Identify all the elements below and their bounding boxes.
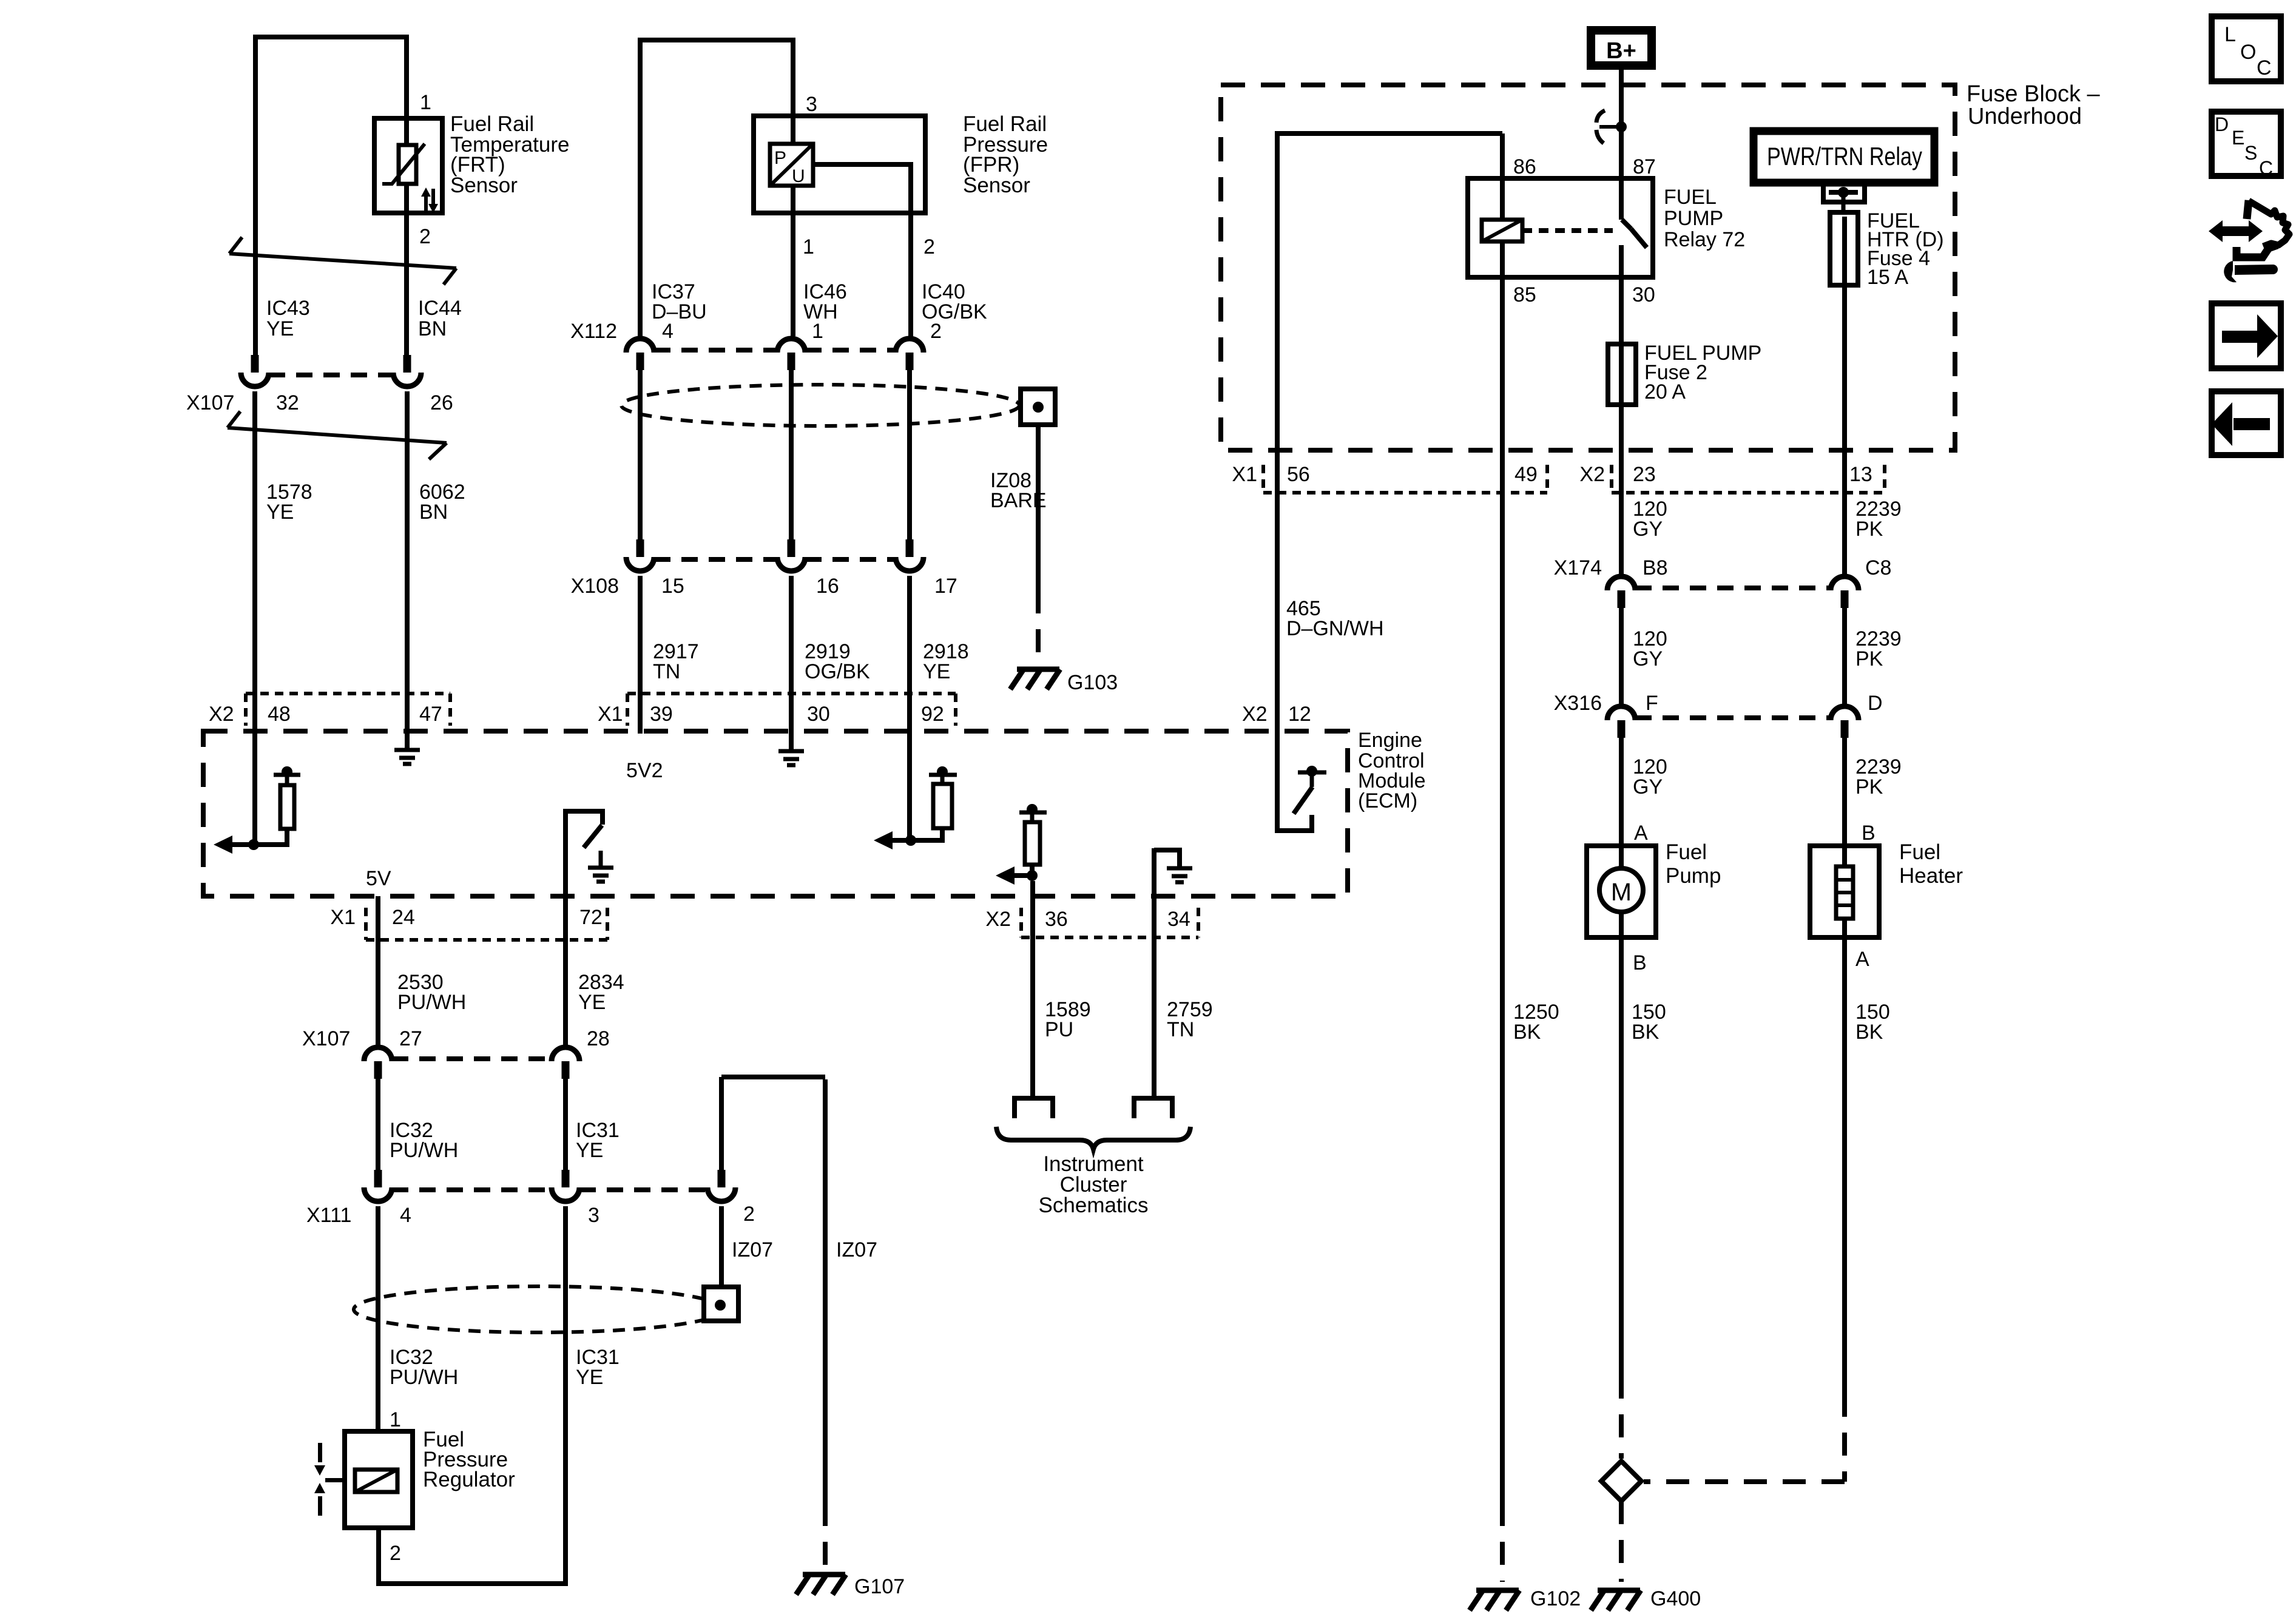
- svg-text:YE: YE: [576, 1139, 603, 1162]
- svg-text:A: A: [1634, 822, 1648, 845]
- Engine Control Module (ECM) dashed box: [203, 731, 1348, 896]
- svg-text:86: 86: [1513, 155, 1536, 178]
- wire 1250 BK dashed to G102: [1500, 1503, 1505, 1582]
- svg-text:PU/WH: PU/WH: [397, 991, 466, 1014]
- svg-text:X2: X2: [1242, 703, 1268, 726]
- ground G400 symbol: [1591, 1590, 1641, 1610]
- svg-text:23: 23: [1633, 463, 1656, 486]
- dashed link X108 row a: [654, 557, 777, 562]
- wire IZ07 to G107 solid: [823, 1079, 828, 1503]
- svg-text:Fuse Block –: Fuse Block –: [1967, 81, 2101, 107]
- PWR/TRN output clip: [1823, 184, 1865, 212]
- wire 6062 BN to ECM X2-47: [405, 391, 410, 749]
- svg-text:47: 47: [419, 703, 442, 726]
- relay coil: [1482, 220, 1522, 241]
- FUEL PUMP Relay 72 box: [1468, 178, 1653, 277]
- Fuel Heater box: [1810, 846, 1879, 937]
- wire 465 feed - relay86 rail to ECM pin12 hook: [1277, 133, 1502, 831]
- connector X111 terminal 3: [552, 1170, 579, 1201]
- splice IZ07 box: [704, 1287, 738, 1321]
- dashed link X107 row2: [392, 1056, 552, 1061]
- splice diamond G400: [1601, 1461, 1641, 1501]
- svg-text:X108: X108: [571, 575, 619, 598]
- wire IZ08 dashed section: [1036, 590, 1041, 666]
- svg-text:2: 2: [923, 235, 935, 258]
- svg-text:Relay 72: Relay 72: [1664, 228, 1745, 251]
- ECM input arrow at pin 48: [214, 836, 254, 854]
- svg-text:B: B: [1633, 951, 1647, 974]
- FRT sensor box: [374, 118, 442, 213]
- svg-text:GY: GY: [1633, 775, 1663, 798]
- wire 2917 TN to ECM X1-39: [638, 576, 643, 734]
- svg-text:YE: YE: [923, 660, 950, 683]
- svg-text:YE: YE: [266, 317, 294, 340]
- ECM 5V pull-up resistor at pin 92: [905, 766, 957, 846]
- wire FPR pin3: [791, 38, 795, 144]
- svg-text:Engine: Engine: [1358, 729, 1422, 752]
- wire 150 BK pump dashed to diamond: [1619, 1376, 1624, 1459]
- connector X111 terminal 4: [364, 1170, 392, 1201]
- svg-text:PK: PK: [1855, 775, 1883, 798]
- icon hand with wrench: [2209, 200, 2289, 282]
- svg-text:O: O: [2240, 41, 2256, 64]
- svg-text:20 A: 20 A: [1644, 380, 1686, 403]
- svg-text:A: A: [1855, 948, 1869, 971]
- connector X316 terminal F: [1607, 706, 1635, 738]
- relay coil-switch dashed link: [1522, 228, 1613, 233]
- up/down arrows inside FRT: [421, 187, 438, 213]
- svg-text:4: 4: [400, 1204, 411, 1227]
- connector X107 terminal 28: [552, 1047, 579, 1079]
- svg-text:G102: G102: [1530, 1587, 1581, 1610]
- svg-text:X112: X112: [570, 320, 617, 343]
- wire through fuse4 down to X174-C8: [1842, 217, 1847, 574]
- svg-text:Pump: Pump: [1666, 864, 1721, 888]
- regulator valve arrows: [314, 1443, 345, 1516]
- svg-text:B: B: [1862, 822, 1876, 845]
- svg-text:X2: X2: [985, 908, 1011, 931]
- svg-text:GY: GY: [1633, 647, 1663, 670]
- svg-text:15 A: 15 A: [1867, 266, 1908, 289]
- wire 2239 PK third: [1842, 737, 1847, 871]
- dashed link X174 row: [1635, 586, 1831, 590]
- svg-text:PK: PK: [1855, 647, 1883, 670]
- svg-text:Sensor: Sensor: [963, 174, 1030, 197]
- svg-text:2: 2: [419, 225, 431, 248]
- svg-text:12: 12: [1288, 703, 1311, 726]
- svg-text:C: C: [2259, 157, 2273, 179]
- ECM internal ground at pin 30: [778, 751, 804, 765]
- svg-text:F: F: [1646, 692, 1658, 715]
- wire FPR pin2 to X112-2: [908, 211, 913, 336]
- svg-text:PK: PK: [1855, 518, 1883, 541]
- wire through fuse2 down to X174-B8: [1619, 261, 1624, 574]
- fuse block bottom connector id row X1: [1263, 465, 1547, 493]
- svg-text:Schematics: Schematics: [1039, 1193, 1149, 1217]
- svg-text:PU: PU: [1045, 1018, 1073, 1041]
- svg-text:32: 32: [276, 391, 299, 414]
- splice IZ08 box: [1021, 389, 1055, 425]
- relay switch blade: [1622, 220, 1647, 248]
- svg-text:56: 56: [1287, 463, 1310, 486]
- svg-text:D–GN/WH: D–GN/WH: [1286, 617, 1384, 640]
- ECM 5V pull-up resistor at pin 48: [248, 766, 300, 850]
- svg-text:30: 30: [1632, 283, 1655, 306]
- svg-text:Fuel: Fuel: [1666, 840, 1707, 864]
- FUEL HTR (D) Fuse 4: [1830, 212, 1858, 285]
- svg-text:C: C: [2257, 56, 2272, 79]
- icon box DESC: [2212, 112, 2281, 179]
- dashed link X111 row b: [579, 1187, 707, 1192]
- svg-text:L: L: [2224, 23, 2236, 46]
- svg-text:34: 34: [1167, 908, 1190, 931]
- svg-text:BK: BK: [1513, 1021, 1541, 1044]
- regulator solenoid symbol: [355, 1470, 397, 1492]
- ECM internal ground elbow at pin 34: [1154, 848, 1180, 896]
- wire 2239 PK second: [1842, 607, 1847, 704]
- dashed link X112 row a: [654, 348, 777, 353]
- harness crossing symbol (second): [228, 411, 447, 459]
- svg-text:X107: X107: [302, 1027, 350, 1050]
- FUEL PUMP Fuse 2: [1608, 344, 1636, 405]
- wire relay 30 to fuse 2: [1619, 245, 1624, 344]
- wire 2918 YE to ECM X1-92: [907, 576, 912, 840]
- svg-text:U: U: [792, 166, 805, 186]
- connector X174 terminal C8: [1831, 576, 1859, 608]
- connector X174 terminal B8: [1607, 576, 1635, 608]
- FPR sensor box: [754, 116, 925, 213]
- svg-text:YE: YE: [266, 501, 294, 524]
- svg-text:X174: X174: [1554, 556, 1602, 579]
- svg-text:1: 1: [390, 1408, 401, 1431]
- svg-text:GY: GY: [1633, 518, 1663, 541]
- svg-text:(ECM): (ECM): [1358, 789, 1417, 812]
- svg-text:B+: B+: [1606, 38, 1636, 64]
- svg-text:Heater: Heater: [1899, 864, 1963, 888]
- svg-text:15: 15: [661, 575, 684, 598]
- svg-text:Fuel: Fuel: [1899, 840, 1940, 864]
- wire IC32 PU/WH lower: [376, 1206, 380, 1431]
- svg-text:X2: X2: [209, 703, 234, 726]
- dashed link X316 row: [1635, 715, 1831, 720]
- ground G107 symbol: [796, 1575, 846, 1595]
- cluster terminal bracket pin 34: [1134, 1098, 1172, 1118]
- svg-text:49: 49: [1514, 463, 1538, 486]
- wire - FPR top jumper: [638, 38, 793, 42]
- dashed link X111 row a: [392, 1187, 552, 1192]
- harness loop ellipse lower: [354, 1286, 724, 1332]
- PWR/TRN Relay box: [1754, 131, 1934, 183]
- svg-text:OG/BK: OG/BK: [805, 660, 870, 683]
- svg-text:X1: X1: [598, 703, 623, 726]
- svg-text:PUMP: PUMP: [1664, 207, 1723, 230]
- svg-text:D: D: [2215, 113, 2229, 135]
- svg-text:D–BU: D–BU: [652, 300, 707, 323]
- svg-text:5V2: 5V2: [626, 759, 663, 782]
- svg-text:92: 92: [921, 703, 944, 726]
- wire IC31 YE upper: [563, 1078, 568, 1170]
- svg-text:3: 3: [806, 93, 817, 116]
- heater element: [1836, 866, 1853, 919]
- ECM input arrow at pin 36: [996, 866, 1032, 885]
- svg-text:YE: YE: [576, 1366, 603, 1389]
- svg-text:X111: X111: [306, 1204, 351, 1227]
- wire - FRT pin1 drop to X107-32: [253, 35, 258, 357]
- svg-text:16: 16: [816, 575, 839, 598]
- svg-text:2: 2: [743, 1203, 755, 1226]
- wire heater return horizontal dashed: [1644, 1479, 1845, 1484]
- connector X108 terminal 17: [896, 539, 923, 571]
- wire FPR pin1 to X112-1: [791, 186, 795, 336]
- ECM bottom connector id row X2 (36,34): [1021, 908, 1198, 937]
- wire 2530 PU/WH: [376, 896, 380, 1045]
- icon box arrow right: [2212, 303, 2281, 368]
- P/U transducer symbol: [770, 144, 813, 186]
- connector X107 terminal 26: [393, 355, 421, 387]
- wire - FRT pin2 drop to X107-26: [404, 35, 409, 355]
- B+ stud junction and clip: [1596, 110, 1627, 143]
- wire regulator return bottom: [379, 1528, 568, 1584]
- dashed link X112 row b: [805, 348, 896, 353]
- connector X316 terminal D: [1831, 706, 1859, 738]
- wire 2759 TN: [1152, 896, 1156, 1096]
- wire 120 GY second: [1619, 607, 1624, 704]
- wire 150 BK heater dashed corner: [1842, 1394, 1847, 1482]
- ECM input arrow at pin 92: [874, 831, 911, 849]
- svg-text:Underhood: Underhood: [1968, 104, 2082, 129]
- wire 2919 OG/BK to ECM X1-30: [789, 576, 794, 749]
- connector X107 terminal 32: [241, 355, 269, 387]
- svg-text:5V: 5V: [366, 867, 391, 890]
- svg-text:BN: BN: [418, 317, 447, 340]
- connector X112 terminal 1: [777, 339, 805, 370]
- wire IC32 PU/WH upper: [376, 1078, 380, 1170]
- ECM 5V pull-up resistor at pin 36: [1019, 804, 1047, 881]
- ECM internal ground at pin 34: [1167, 868, 1192, 882]
- wire 150 BK pump solid: [1619, 912, 1624, 1376]
- connector X112 terminal 2: [896, 339, 923, 370]
- svg-text:C8: C8: [1865, 556, 1891, 579]
- ground G103 symbol: [1010, 669, 1060, 689]
- svg-text:1: 1: [420, 91, 431, 114]
- svg-text:M: M: [1611, 878, 1632, 906]
- svg-text:IC43: IC43: [266, 297, 310, 320]
- wire IC40 YE: [907, 370, 912, 539]
- connector X107 terminal 27: [364, 1047, 392, 1079]
- svg-text:PU/WH: PU/WH: [390, 1366, 458, 1389]
- ECM driver switch at pin 72: [566, 811, 603, 896]
- wire IZ07 top link: [721, 1075, 825, 1079]
- svg-text:X107: X107: [186, 391, 234, 414]
- svg-text:FUEL: FUEL: [1664, 186, 1717, 209]
- svg-text:B8: B8: [1643, 556, 1668, 579]
- svg-text:YE: YE: [578, 991, 606, 1014]
- harness crossing symbol (top): [229, 237, 456, 285]
- wire diamond to G400 dashed: [1619, 1501, 1624, 1582]
- thermistor element inside FRT: [382, 144, 425, 184]
- svg-text:72: 72: [579, 906, 603, 929]
- svg-text:BK: BK: [1855, 1021, 1883, 1044]
- svg-text:P: P: [774, 148, 786, 168]
- icon box arrow left: [2212, 391, 2281, 455]
- svg-text:X2: X2: [1579, 463, 1605, 486]
- svg-text:X316: X316: [1554, 692, 1602, 715]
- ECM internal ground at pin 47: [394, 750, 420, 764]
- wire to relay coil 86: [1500, 133, 1505, 220]
- svg-text:S: S: [2244, 142, 2257, 164]
- wire 1589 PU: [1030, 881, 1035, 1096]
- wire IC37 TN: [638, 370, 643, 539]
- svg-text:X1: X1: [330, 906, 356, 929]
- wire IZ08 bare to G103 solid: [1036, 425, 1041, 590]
- svg-text:X1: X1: [1232, 463, 1257, 486]
- wire IC46 OG/BK: [789, 370, 794, 539]
- Fuel Pressure Regulator box: [345, 1431, 413, 1528]
- connector X112 terminal 4: [626, 339, 654, 370]
- wire B+ to relay 87: [1619, 67, 1624, 220]
- svg-text:OG/BK: OG/BK: [922, 300, 987, 323]
- svg-text:39: 39: [650, 703, 673, 726]
- svg-text:2: 2: [390, 1542, 401, 1565]
- cluster terminal bracket pin 36: [1015, 1098, 1053, 1118]
- fuse block bottom connector id row X2: [1612, 465, 1885, 493]
- svg-text:3: 3: [588, 1204, 599, 1227]
- svg-text:Sensor: Sensor: [450, 174, 518, 197]
- svg-text:28: 28: [587, 1027, 610, 1050]
- svg-text:27: 27: [399, 1027, 422, 1050]
- svg-text:13: 13: [1849, 463, 1872, 486]
- svg-text:24: 24: [392, 906, 415, 929]
- svg-text:17: 17: [934, 575, 957, 598]
- svg-text:26: 26: [430, 391, 453, 414]
- svg-text:TN: TN: [1167, 1018, 1194, 1041]
- ECM driver switch at pin 12: [1294, 766, 1326, 814]
- dashed link X107 row1: [269, 373, 393, 377]
- wire IZ07 dashed section: [823, 1503, 828, 1571]
- svg-text:IC44: IC44: [418, 297, 462, 320]
- ECM internal ground at pin 72 switch: [588, 868, 613, 882]
- wire IZ07 to splice: [719, 1206, 724, 1287]
- svg-text:Regulator: Regulator: [423, 1468, 515, 1491]
- svg-text:IZ07: IZ07: [836, 1238, 877, 1261]
- wire IC37 D-BU (X112-4 drop): [638, 38, 643, 336]
- svg-text:G103: G103: [1067, 671, 1118, 694]
- svg-text:G107: G107: [854, 1575, 905, 1598]
- wire to X111-2: [719, 1077, 724, 1170]
- svg-text:G400: G400: [1650, 1587, 1701, 1610]
- svg-text:48: 48: [268, 703, 291, 726]
- svg-text:BK: BK: [1632, 1021, 1660, 1044]
- connector X111 terminal 2: [707, 1170, 735, 1201]
- wire 2834 YE: [563, 896, 568, 1045]
- wire 120 GY third: [1619, 737, 1624, 868]
- Fuse Block - Underhood dashed box: [1221, 85, 1955, 450]
- B+ terminal box: [1591, 30, 1652, 66]
- svg-text:87: 87: [1633, 155, 1656, 178]
- svg-text:30: 30: [807, 703, 830, 726]
- svg-text:36: 36: [1045, 908, 1068, 931]
- Fuel Pump box: [1587, 846, 1656, 937]
- ground G102 symbol: [1470, 1590, 1519, 1610]
- svg-text:D: D: [1868, 692, 1883, 715]
- svg-text:TN: TN: [653, 660, 680, 683]
- fuel pump motor: [1599, 868, 1643, 912]
- wire 150 BK heater solid: [1842, 919, 1847, 1394]
- wire - top jumper between FRT pins: [253, 35, 409, 39]
- wire FPR internal link to pin2: [813, 164, 911, 213]
- svg-text:IZ07: IZ07: [732, 1238, 773, 1261]
- ECM connector id row X2 (48,47): [246, 694, 450, 726]
- svg-text:BN: BN: [419, 501, 448, 524]
- svg-text:WH: WH: [803, 300, 838, 323]
- svg-text:1: 1: [803, 235, 814, 258]
- wire relay85-49-1250BK to G102 solid: [1500, 241, 1505, 1503]
- svg-text:E: E: [2232, 127, 2244, 149]
- svg-text:PWR/TRN Relay: PWR/TRN Relay: [1767, 142, 1922, 170]
- wire 1578 YE to ECM X2-48: [252, 391, 257, 845]
- connector X108 terminal 15: [626, 539, 654, 571]
- dashed link X108 row b: [805, 557, 896, 562]
- brace for instrument cluster: [996, 1127, 1190, 1149]
- icon box LOC: [2212, 16, 2281, 81]
- connector X108 terminal 16: [777, 539, 805, 571]
- harness loop ellipse: [621, 385, 1019, 426]
- ECM bottom connector id row X1 (24,72): [366, 908, 607, 940]
- svg-text:85: 85: [1513, 283, 1536, 306]
- wire IC31 YE lower: [563, 1206, 568, 1584]
- ECM connector id row X1 (39,30,92): [627, 694, 956, 726]
- svg-text:PU/WH: PU/WH: [390, 1139, 458, 1162]
